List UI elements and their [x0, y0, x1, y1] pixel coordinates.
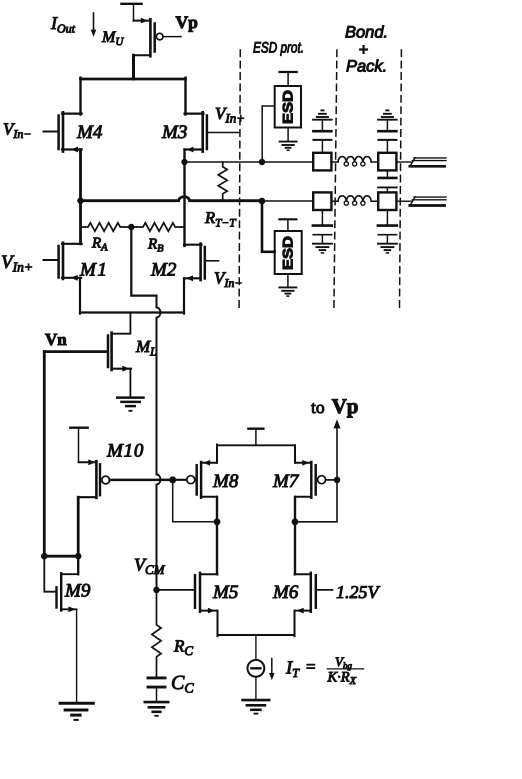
boundary dashed line Bond right — [400, 50, 402, 309]
node ESD2 tap — [259, 198, 266, 205]
label I_T formula — [285, 654, 357, 687]
svg-text:ESD prot.: ESD prot. — [253, 40, 304, 57]
svg-text:M8: M8 — [212, 471, 239, 492]
RF line 1 (to row-1 pads) — [185, 161, 314, 163]
boundary dashed line Bond left — [334, 50, 337, 309]
ground C_C — [145, 702, 168, 716]
wire M7 drain to rail — [294, 445, 296, 463]
transistor M10 — [78, 459, 109, 497]
supply bar above M_U — [122, 4, 142, 21]
svg-text:Vn: Vn — [45, 330, 67, 349]
svg-text:M10: M10 — [106, 441, 144, 462]
transistor M4 — [44, 112, 82, 152]
wire M8 source down to M5 — [216, 497, 218, 575]
wire rail to M3 drain — [184, 78, 186, 115]
wire rail to M4 drain — [79, 78, 81, 115]
bond wire inductor row2 — [338, 196, 371, 205]
svg-text:M9: M9 — [64, 581, 91, 602]
current source I_T — [248, 660, 265, 699]
wire common-mode rail with hop over M3 branch — [81, 197, 263, 201]
svg-text:+: + — [359, 41, 369, 59]
bond wire inductor row1 — [338, 157, 371, 166]
microstrip ribbon row2 — [410, 197, 446, 206]
transistor M1 — [44, 243, 82, 281]
wire gate loop down to M8 drain node — [173, 480, 217, 522]
wire M9 drain up — [77, 556, 79, 574]
wire M5 source down — [217, 611, 219, 637]
node R_A/R_B center tap — [128, 224, 134, 230]
transistor M3 — [185, 112, 240, 152]
supply rail M8/M7 — [217, 444, 295, 446]
capacitor above row1 left pad — [313, 120, 331, 153]
wire top rail — [81, 78, 186, 81]
fraction bar — [327, 668, 363, 670]
wire row1 pad to inductor — [332, 161, 338, 163]
wire V_CM down with hops over source rail and M10 gate — [157, 296, 161, 590]
node M3 output on RF line 1 — [181, 159, 187, 165]
svg-text:M1: M1 — [79, 260, 108, 281]
capacitor below row2 left pad — [313, 210, 332, 243]
node M10 source tie right — [75, 553, 82, 560]
svg-text:M6: M6 — [272, 582, 299, 603]
wire M10 gate to node — [110, 479, 173, 482]
resistor R_B — [131, 223, 184, 231]
wire row1 right pad to microstrip — [396, 161, 410, 163]
capacitor between right pads — [378, 170, 397, 192]
wire to-Vp output — [295, 427, 337, 522]
node M7 gate tie — [334, 477, 341, 484]
bond pad row1 left — [313, 153, 331, 171]
wire M_U drain to top rail — [132, 55, 135, 79]
arrow to Vp — [334, 419, 341, 428]
svg-text:M4: M4 — [76, 122, 103, 143]
ground tail — [243, 700, 270, 714]
ground M_L — [117, 398, 143, 411]
capacitor above row1 right pad — [378, 120, 396, 153]
wire M10 source down — [77, 497, 80, 557]
transistor M9 — [57, 573, 79, 612]
microstrip ribbon row1 — [410, 158, 446, 167]
svg-text:Bond.: Bond. — [345, 24, 388, 42]
svg-text:Vp: Vp — [176, 12, 199, 32]
current arrow I_Out — [91, 13, 97, 37]
ground ESD2 — [279, 287, 296, 296]
bond pad row2 left — [313, 192, 331, 210]
ground ESD1 — [280, 142, 297, 151]
arrow I_T — [269, 659, 275, 681]
node M8/M5 junction — [214, 518, 221, 525]
wire Vn down to M9/M10 tie — [43, 352, 46, 558]
node M7/M6 junction — [292, 518, 299, 525]
inverted ground above row1 right cap — [378, 110, 397, 119]
ground below row2 left pad — [313, 244, 332, 253]
wire M6 source down — [294, 611, 296, 637]
transistor M_L — [108, 333, 131, 372]
wire common source rail — [80, 311, 184, 313]
transistor M7 — [295, 460, 337, 498]
ESD block 1 — [262, 72, 301, 160]
ground M9 — [60, 703, 93, 720]
node ESD1 tap — [259, 159, 265, 165]
capacitor C_C — [148, 678, 165, 701]
svg-text:M7: M7 — [272, 471, 300, 492]
wire M3 node down to R_B and M2 drain — [183, 162, 185, 246]
node Vn tie left — [41, 553, 48, 560]
svg-text:=: = — [306, 657, 316, 676]
resistor R_T-T — [218, 162, 227, 200]
svg-text:Pack.: Pack. — [346, 58, 387, 76]
transistor M2 — [184, 244, 219, 282]
inverted ground above row1 left cap — [313, 110, 332, 119]
wire tail to current source — [255, 635, 257, 660]
transistor M8 — [173, 460, 217, 498]
supply bar above M10 — [70, 428, 87, 463]
label Bond. + Pack. — [345, 24, 388, 76]
wire Vn to M10 source tie — [44, 555, 78, 558]
wire M8 drain to supply rail — [216, 445, 218, 463]
wire M_L source to ground — [129, 369, 131, 397]
svg-text:toVp: toVp — [311, 394, 358, 418]
wire tail rail — [218, 634, 295, 636]
resistor R_A — [81, 223, 132, 231]
wire M2 source down — [183, 278, 185, 313]
transistor M6 — [295, 573, 333, 614]
wire M1 source down — [79, 278, 81, 314]
transistor M_U — [134, 18, 182, 57]
wire row2 pad to inductor — [332, 200, 338, 202]
wire row2 right pad to microstrip — [396, 200, 410, 202]
svg-text:ESD: ESD — [280, 90, 296, 124]
svg-text:ESD: ESD — [280, 236, 296, 270]
node M10/M8 gate junction — [169, 476, 176, 483]
resistor R_C — [152, 590, 161, 677]
capacitor below row2 right pad — [378, 210, 397, 243]
wire M3 source down to output node — [183, 150, 185, 164]
wire V_CM sense from center tap — [131, 227, 156, 296]
wire M7 source down to M6 — [294, 497, 296, 575]
svg-text:M3: M3 — [161, 122, 187, 143]
ESD block 2 — [262, 201, 302, 287]
wire inductor to row2 right pad — [371, 200, 378, 202]
ground below row2 right pad — [378, 244, 397, 253]
wire M_L drain from source rail — [113, 313, 131, 334]
svg-text:1.25V: 1.25V — [336, 582, 381, 602]
wire to M9 gate — [44, 556, 56, 592]
wire M9 source to ground — [76, 609, 78, 702]
bond pad row1 right — [378, 153, 396, 171]
svg-text:M2: M2 — [150, 260, 177, 281]
svg-text:M5: M5 — [212, 582, 238, 603]
wire M4 source down through node to M1 drain — [79, 150, 82, 244]
supply bar M8/M7 — [248, 429, 263, 446]
wire Vn gate line (thick) — [44, 350, 107, 353]
wire inductor to row1 right pad — [371, 161, 378, 163]
node M4/M1/common-mode rail junction — [77, 198, 83, 204]
node V_CM — [153, 587, 160, 594]
bond pad row2 right — [378, 192, 396, 210]
RF line 2 thin part (to row-2 pads) — [262, 200, 313, 202]
transistor M5 — [157, 573, 218, 614]
boundary dashed line ESD left — [239, 50, 240, 309]
